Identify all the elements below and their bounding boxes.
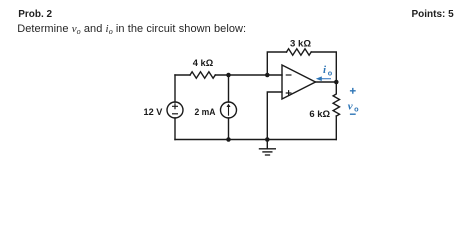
wire bottom rail xyxy=(175,139,336,141)
wire top left horizontal xyxy=(175,74,190,76)
resistor 3 kΩ xyxy=(287,49,312,55)
svg-text:4 kΩ: 4 kΩ xyxy=(193,58,214,69)
node B junction dot (feedback tap) xyxy=(265,73,270,78)
svg-text:o: o xyxy=(328,69,333,78)
wire right vertical to rail xyxy=(335,116,337,140)
svg-text:3 kΩ: 3 kΩ xyxy=(290,38,311,49)
svg-text:o: o xyxy=(354,105,359,114)
junction dot ground tap xyxy=(265,137,270,142)
ground xyxy=(266,140,268,149)
wire feedback right down to output xyxy=(311,52,336,82)
current source IS 2 mA xyxy=(221,102,237,118)
title Prob. 2 xyxy=(18,9,52,20)
svg-text:6 kΩ: 6 kΩ xyxy=(309,109,330,120)
svg-text:v: v xyxy=(348,100,353,112)
label − (v_o polarity) xyxy=(350,113,356,115)
svg-text:12 V: 12 V xyxy=(144,107,163,118)
wire op-amp output xyxy=(316,81,337,83)
points label xyxy=(412,9,454,20)
wire left branch vertical (12V branch) xyxy=(174,75,176,140)
wire feedback left vertical xyxy=(267,52,286,75)
svg-text:i: i xyxy=(323,64,327,76)
svg-text:2 mA: 2 mA xyxy=(195,107,216,118)
op-amp U1 xyxy=(282,65,316,99)
problem statement xyxy=(17,23,246,35)
node C junction dot (op-amp output) xyxy=(334,80,339,85)
label + (v_o polarity) xyxy=(350,88,356,94)
node A junction dot (4k / 2mA / op-amp input) xyxy=(226,73,231,78)
resistor 4 kΩ xyxy=(190,72,215,78)
current arrow i_o xyxy=(320,78,331,80)
voltage source VS 12 V xyxy=(167,102,183,118)
wire 2 mA branch vertical xyxy=(228,75,230,140)
junction dot 2mA bottom xyxy=(226,137,231,142)
wire from 4k to op-amp minus input xyxy=(215,74,282,76)
resistor 6 kΩ xyxy=(333,82,339,116)
wire plus input to ground rail xyxy=(267,92,282,140)
